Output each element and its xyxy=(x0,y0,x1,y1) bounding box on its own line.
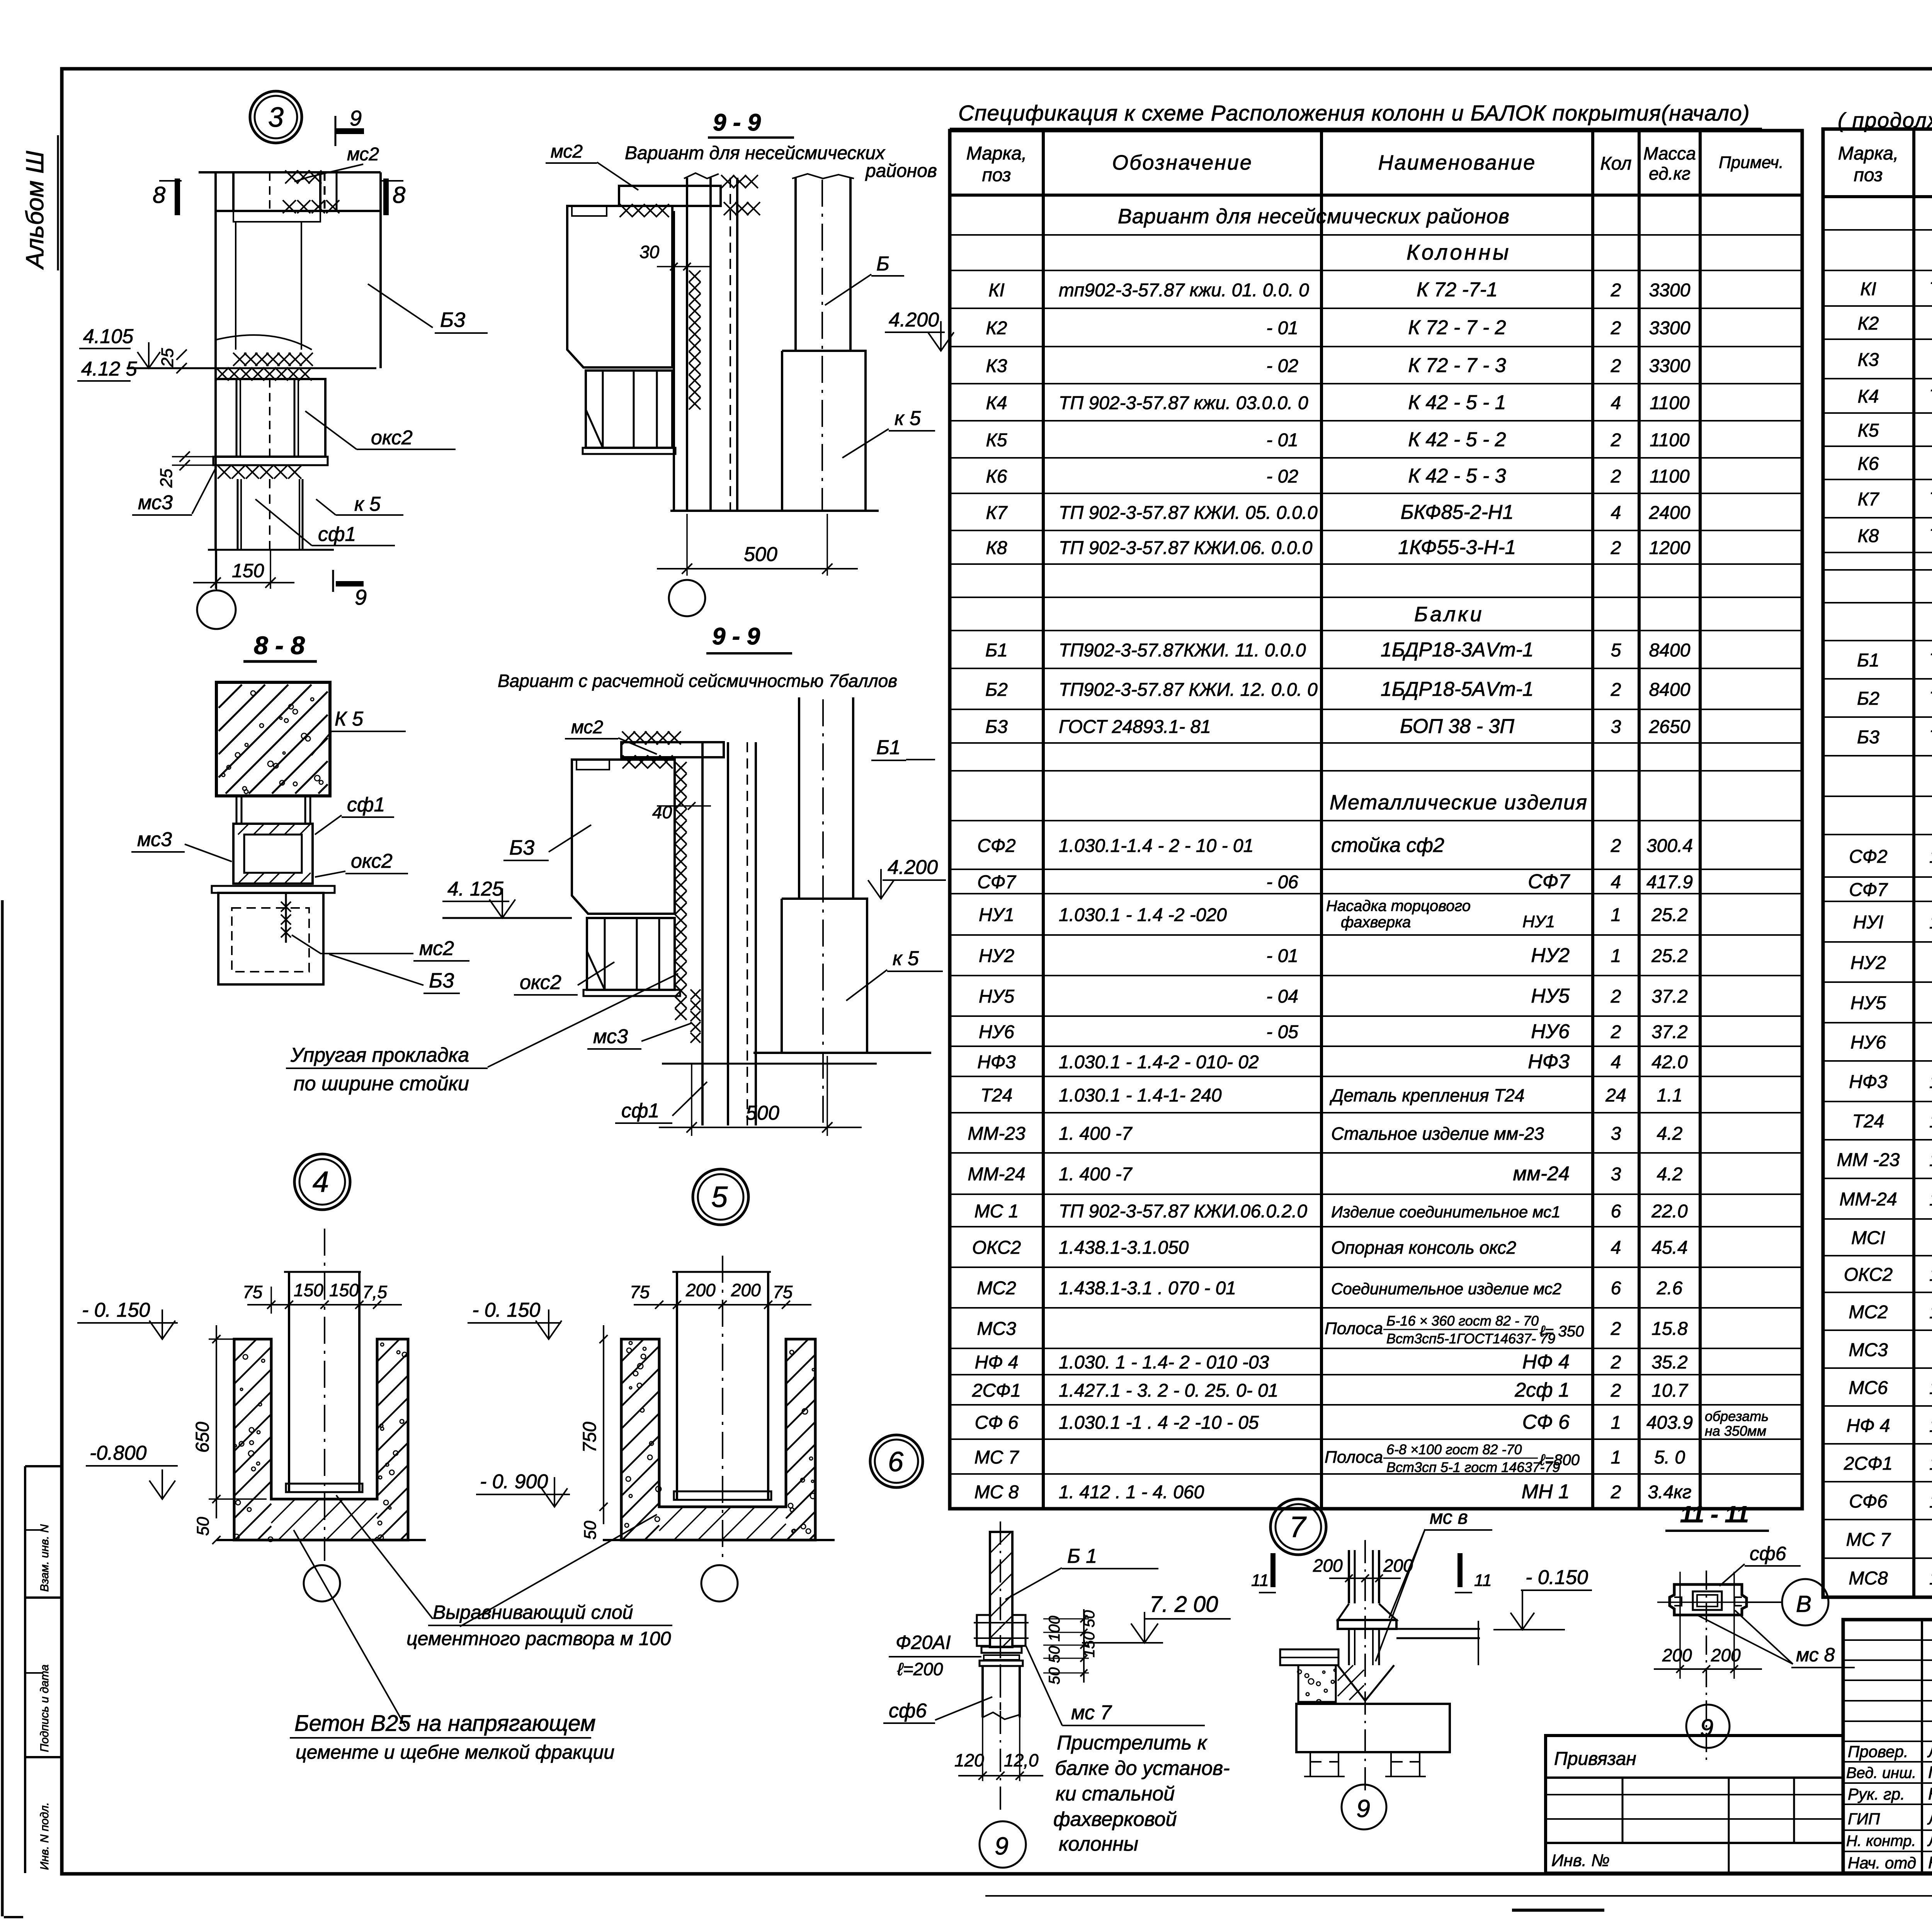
section mark 8 left tick xyxy=(175,178,180,215)
spec table2 header underline xyxy=(1823,195,1932,198)
fnd5 column left line xyxy=(676,1272,678,1500)
svg-text:5: 5 xyxy=(1611,640,1621,661)
svg-text:КI: КI xyxy=(1860,279,1876,299)
viewC ground line xyxy=(753,1052,931,1054)
label К5 underline viewC xyxy=(887,971,943,972)
d11 circle В xyxy=(1782,1579,1828,1625)
svg-text:2: 2 xyxy=(1611,1319,1621,1339)
svg-text:4. 125: 4. 125 xyxy=(447,878,504,900)
fnd4 hatch left wall xyxy=(234,1339,271,1540)
svg-text:500: 500 xyxy=(746,1102,779,1124)
node circle 3 xyxy=(250,91,302,143)
label ОКС2 underline xyxy=(357,449,456,450)
svg-text:6: 6 xyxy=(1611,1278,1621,1299)
svg-text:В: В xyxy=(1796,1591,1811,1617)
svg-text:417.9: 417.9 xyxy=(1646,872,1693,892)
svg-text:СФ 6: СФ 6 xyxy=(975,1413,1019,1433)
svg-text:2: 2 xyxy=(1611,836,1621,856)
svg-text:К4: К4 xyxy=(986,393,1007,413)
fnd4 leader to note2 xyxy=(294,1530,406,1727)
svg-text:1. 030. 1 - 1.4 - 2 - 010- 0: 1. 030. 1 - 1.4 - 2 - 010- 02 xyxy=(1929,1072,1932,1092)
d7 dim ticks xyxy=(1345,1574,1353,1582)
svg-text:4.12 5: 4.12 5 xyxy=(81,358,138,380)
svg-text:ТП 902-3-57. 87 КЖИ. 05. 0.0: ТП 902-3-57. 87 КЖИ. 05. 0.0.0 xyxy=(1929,489,1932,510)
svg-text:Краснова: Краснова xyxy=(1928,1785,1932,1804)
svg-text:Марка,: Марка, xyxy=(966,143,1027,164)
svg-text:50 50 100: 50 50 100 xyxy=(1046,1616,1063,1685)
fnd4 column right line xyxy=(358,1272,361,1492)
fw clamp right xyxy=(1012,1615,1026,1646)
viewC gasket xxx column xyxy=(675,762,687,1020)
fnd4 level -0.150 underline xyxy=(77,1322,178,1324)
svg-text:2: 2 xyxy=(1611,680,1621,700)
fnd5 pit outline xyxy=(621,1339,815,1540)
d7 right beam edge xyxy=(1478,1621,1479,1665)
svg-text:Б3: Б3 xyxy=(985,717,1008,737)
svg-text:К5: К5 xyxy=(986,430,1007,450)
viewA plate right edge xyxy=(319,172,321,211)
svg-text:Вариант для несейсмических: Вариант для несейсмических xyxy=(625,143,886,163)
svg-text:40: 40 xyxy=(652,802,672,822)
svg-text:3300: 3300 xyxy=(1649,280,1690,301)
leader СФ1 viewA xyxy=(255,499,312,546)
spec table2 row lines xyxy=(1823,229,1932,231)
svg-text:к 5: к 5 xyxy=(354,493,381,515)
viewA beam right edge xyxy=(379,172,382,368)
svg-text:- 01: - 01 xyxy=(1266,946,1298,966)
viewA lower column v3 xyxy=(299,479,300,550)
svg-text:9 - 9: 9 - 9 xyxy=(713,109,761,136)
svg-text:сф1: сф1 xyxy=(347,794,385,816)
fnd5 column top break xyxy=(672,1271,771,1273)
leader мс3 viewC xyxy=(641,1023,692,1041)
svg-text:6-8 ×100 гост 82 -70: 6-8 ×100 гост 82 -70 xyxy=(1386,1442,1522,1457)
level 4.200 underline viewC xyxy=(883,879,946,881)
svg-text:2400: 2400 xyxy=(1649,503,1690,523)
d11 axis vertical xyxy=(1706,1571,1707,1762)
left margin strip divider 1 xyxy=(25,1465,62,1467)
svg-text:Б-16 × 360 гост 82 - 70: Б-16 × 360 гост 82 - 70 xyxy=(1386,1313,1539,1329)
svg-text:К 72 - 7 - 2: К 72 - 7 - 2 xyxy=(1408,316,1506,339)
svg-text:НУ6: НУ6 xyxy=(979,1022,1014,1042)
svg-text:МС 1: МС 1 xyxy=(975,1201,1019,1222)
leader Б viewB xyxy=(825,274,871,305)
svg-text:КI: КI xyxy=(988,280,1005,301)
fnd5 level -0.150 mark xyxy=(536,1321,561,1339)
svg-text:ТП 902-3-57.87 КЖИ. 05. 0.0.0: ТП 902-3-57.87 КЖИ. 05. 0.0.0 xyxy=(1059,503,1318,523)
svg-text:Вст3сп5-1ГОСТ14637- 79: Вст3сп5-1ГОСТ14637- 79 xyxy=(1386,1331,1555,1346)
d11 label мс8 underline xyxy=(1791,1667,1855,1668)
svg-text:6: 6 xyxy=(1611,1201,1621,1222)
left margin strip mid tick a xyxy=(25,1529,43,1531)
viewB console bottom plate xyxy=(583,448,675,454)
svg-text:обрезать: обрезать xyxy=(1705,1408,1769,1424)
fnd4 level -0.800 underline xyxy=(86,1465,178,1467)
svg-text:25: 25 xyxy=(158,348,177,367)
fnd4 column top break xyxy=(284,1271,361,1273)
d11 axis side v2 xyxy=(1733,1572,1735,1679)
svg-text:мс2: мс2 xyxy=(419,937,454,960)
viewC col axis dashdot xyxy=(822,699,824,1125)
svg-text:8400: 8400 xyxy=(1649,640,1690,661)
svg-text:11 - 11: 11 - 11 xyxy=(1680,1501,1749,1527)
fw lower column collar xyxy=(980,1661,1023,1666)
svg-text:К8: К8 xyxy=(1858,526,1879,546)
svg-text:Б 1: Б 1 xyxy=(1067,1545,1097,1567)
svg-text:1.438.1-3.1.050: 1.438.1-3.1.050 xyxy=(1059,1238,1189,1258)
svg-text:Кол: Кол xyxy=(1600,153,1632,174)
spec table2 column lines xyxy=(1912,129,1915,1597)
svg-text:МС 7: МС 7 xyxy=(1846,1530,1891,1550)
viewB console inner v3 xyxy=(656,371,658,448)
viewA bottom ground line xyxy=(208,549,334,551)
viewB column line b xyxy=(686,178,688,511)
svg-text:фахверка: фахверка xyxy=(1341,914,1411,931)
svg-text:Ф20АI: Ф20АI xyxy=(896,1632,951,1653)
svg-text:1. 400 - 7: 1. 400 - 7 xyxy=(1929,1189,1932,1210)
viewA bottom dim ticks xyxy=(211,578,221,588)
level 7.200 mark xyxy=(1131,1623,1158,1643)
svg-text:ГОСТ 24893.1- 81: ГОСТ 24893.1- 81 xyxy=(1059,717,1211,737)
d11 leader мс8 a xyxy=(1697,1615,1793,1664)
svg-text:2: 2 xyxy=(1611,1352,1621,1373)
svg-text:8: 8 xyxy=(153,182,166,208)
viewB plate weld top xxx xyxy=(721,175,758,188)
svg-text:9: 9 xyxy=(995,1832,1009,1860)
node circle 6 xyxy=(870,1435,923,1487)
viewA inner plate line xyxy=(336,172,338,211)
label мс2 underline viewC xyxy=(565,738,618,739)
svg-text:Б3: Б3 xyxy=(1857,727,1879,748)
archive number line xyxy=(985,1895,1932,1897)
viewC right col Б1 line b xyxy=(852,697,854,899)
svg-text:Красавин: Красавин xyxy=(1928,1853,1932,1872)
svg-text:2: 2 xyxy=(1611,318,1621,338)
fnd4 hatch bottom xyxy=(271,1499,377,1540)
annex grid verticals xyxy=(1622,1778,1624,1843)
label Б3 underline viewC xyxy=(503,860,549,861)
d7 node circle 9 xyxy=(1342,1785,1386,1829)
svg-text:Б3: Б3 xyxy=(429,969,454,992)
d7 level -0.150 arrow xyxy=(1522,1590,1523,1627)
viewB right col Б line b xyxy=(849,178,852,351)
svg-text:стойка сф2: стойка сф2 xyxy=(1331,834,1444,857)
svg-text:НУ1: НУ1 xyxy=(1522,912,1555,931)
viewA beam axis dashed xyxy=(269,172,270,211)
svg-text:К 5: К 5 xyxy=(335,708,364,730)
svg-text:200: 200 xyxy=(1313,1555,1343,1576)
viewA console bottom plate xyxy=(213,457,328,465)
viewC level line xyxy=(442,917,572,919)
fnd5 leader to note1 xyxy=(460,1515,657,1627)
viewB top plate xyxy=(619,186,721,206)
svg-text:ТП 902-3-57.87 КЖИ. 04. 0.0.0: ТП 902-3-57.87 КЖИ. 04. 0.0.0 xyxy=(1929,386,1932,407)
svg-text:Спецификация к схеме Распо: Спецификация к схеме Расположения колонн… xyxy=(958,101,1750,126)
node circle 5 xyxy=(693,1169,748,1225)
svg-text:К 42 - 5 - 3: К 42 - 5 - 3 xyxy=(1408,465,1506,487)
svg-text:1. 427. 1 -3. 2 - 0. 25. 0- 01: 1. 427. 1 -3. 2 - 0. 25. 0- 01 xyxy=(1929,1453,1932,1474)
viewC lower break line xyxy=(662,1063,877,1065)
label СФ6 underline fw xyxy=(883,1722,935,1724)
leader Б3 viewA xyxy=(368,284,433,328)
fnd4 dim 650 ext xyxy=(209,1338,240,1340)
svg-text:ТП 902-3-57.87 КЖИ. 02. 0.0.: ТП 902-3-57.87 КЖИ. 02. 0.0. 0 xyxy=(1929,279,1932,299)
svg-text:11: 11 xyxy=(1251,1571,1269,1590)
svg-text:ℓ= 350: ℓ= 350 xyxy=(1539,1323,1584,1340)
svg-text:- 02: - 02 xyxy=(1266,356,1298,376)
viewB dim 500 ticks xyxy=(682,564,692,574)
svg-text:мс 7: мс 7 xyxy=(1071,1702,1112,1724)
label МС2 underline viewD xyxy=(413,960,469,962)
viewB ground line xyxy=(670,510,879,512)
svg-text:мс3: мс3 xyxy=(138,491,173,514)
svg-text:Полоса: Полоса xyxy=(1325,1319,1383,1338)
svg-text:Провер.: Провер. xyxy=(1848,1742,1908,1761)
viewA lower column v1 xyxy=(237,479,239,550)
label мс2 underline viewB xyxy=(546,162,597,164)
d11 axis horizontal xyxy=(1657,1601,1770,1603)
svg-text:Нач. отд: Нач. отд xyxy=(1848,1854,1916,1872)
viewA beam inner vert b xyxy=(301,222,302,350)
svg-text:12,0: 12,0 xyxy=(1004,1750,1039,1770)
svg-text:мс2: мс2 xyxy=(347,144,379,165)
d7 concrete block left xyxy=(1298,1665,1336,1702)
svg-text:75: 75 xyxy=(630,1282,650,1302)
svg-text:К6: К6 xyxy=(986,466,1007,487)
svg-text:Б1: Б1 xyxy=(1857,650,1879,671)
fnd4 dim 650 line xyxy=(216,1325,217,1518)
viewD title underline xyxy=(243,660,317,663)
d7 funnel xyxy=(1338,1665,1394,1701)
viewD СФ1 hatch xyxy=(233,824,311,835)
fw vert dim ticks xyxy=(1080,1615,1087,1622)
svg-text:1.1: 1.1 xyxy=(1657,1085,1683,1106)
svg-text:ℓ=200: ℓ=200 xyxy=(897,1659,943,1679)
fnd4 base line xyxy=(216,1539,426,1541)
svg-text:Подпись и дата: Подпись и дата xyxy=(38,1664,51,1752)
svg-text:Выравнивающий слой: Выравнивающий слой xyxy=(433,1601,633,1623)
annex grid rows xyxy=(1546,1794,1843,1795)
svg-text:Б3: Б3 xyxy=(509,836,534,859)
fnd4 dots left xyxy=(234,1355,273,1542)
svg-text:8 - 8: 8 - 8 xyxy=(254,631,305,660)
svg-text:К7: К7 xyxy=(1858,489,1880,510)
viewA grid circle axis xyxy=(216,550,217,590)
fw dim ext lines down xyxy=(982,1717,983,1781)
svg-text:1.438. 1 - 3.1. 070 - 05: 1.438. 1 - 3.1. 070 - 05 xyxy=(1929,1378,1932,1398)
viewA weld band xxx upper xyxy=(233,353,313,366)
svg-text:Рук. гр.: Рук. гр. xyxy=(1848,1785,1905,1803)
viewA level line 4.105 xyxy=(127,367,376,369)
svg-text:9: 9 xyxy=(1700,1715,1713,1741)
svg-text:ед.кг: ед.кг xyxy=(1649,163,1690,184)
level 4.125 underline xyxy=(77,380,131,382)
svg-text:1. 030. 1 - 1. 4 - 2 - 02: 1. 030. 1 - 1. 4 - 2 - 020 xyxy=(1929,912,1932,933)
fnd4 dim 650 ticks xyxy=(212,1335,220,1343)
svg-text:МН 1: МН 1 xyxy=(1522,1481,1570,1503)
svg-text:4: 4 xyxy=(1611,1238,1621,1258)
d7 leader мс8 a xyxy=(1389,1529,1425,1618)
svg-text:ТП 902-3-57.87 КЖИ. 12. 0.0.0: ТП 902-3-57.87 КЖИ. 12. 0.0.0 xyxy=(1929,688,1932,709)
svg-text:1.030.1-1.4 - 2 - 10 - 01: 1.030.1-1.4 - 2 - 10 - 01 xyxy=(1059,836,1253,856)
svg-text:5. 0: 5. 0 xyxy=(1654,1447,1685,1468)
fnd5 column bottom plate xyxy=(674,1491,771,1500)
svg-text:3300: 3300 xyxy=(1649,356,1690,376)
svg-text:9: 9 xyxy=(350,106,362,130)
svg-text:К2: К2 xyxy=(986,318,1007,338)
svg-text:25.2: 25.2 xyxy=(1651,905,1687,925)
fnd5 dots right xyxy=(788,1350,816,1533)
fw dim 120 line xyxy=(958,1775,1043,1776)
fnd5 column axis xyxy=(722,1256,723,1561)
viewC top plate xyxy=(621,742,724,757)
annex привязан row line xyxy=(1546,1776,1843,1779)
svg-text:150 50: 150 50 xyxy=(1081,1610,1098,1657)
d7 right beam line2 xyxy=(1396,1637,1480,1639)
svg-text:Т24: Т24 xyxy=(981,1085,1013,1106)
leader Б1 viewC xyxy=(906,759,935,760)
svg-text:Б1: Б1 xyxy=(985,640,1008,661)
viewA weld crosses top xyxy=(285,170,321,184)
svg-text:Обозначение: Обозначение xyxy=(1112,151,1253,174)
svg-text:поз: поз xyxy=(982,165,1011,185)
svg-text:ТП 902-3-57.87 КЖИ . 11. 0.0: ТП 902-3-57.87 КЖИ . 11. 0.0.0 xyxy=(1929,650,1932,671)
svg-text:2650: 2650 xyxy=(1649,717,1690,737)
viewA console inner v1 xyxy=(236,379,238,457)
svg-text:Деталь крепления Т24: Деталь крепления Т24 xyxy=(1329,1085,1524,1105)
svg-text:НФ3: НФ3 xyxy=(1528,1051,1570,1073)
spec table1 column lines xyxy=(1042,131,1045,1509)
svg-text:2: 2 xyxy=(1611,986,1621,1007)
d11 node circle 9 xyxy=(1686,1705,1730,1748)
leader ОКС2 viewA xyxy=(305,411,357,449)
svg-text:35.2: 35.2 xyxy=(1651,1352,1687,1373)
d7 label мс8 underline xyxy=(1425,1529,1492,1531)
fnd4 column bottom plate xyxy=(286,1484,362,1492)
d11 groove left xyxy=(1674,1597,1682,1606)
svg-text:2: 2 xyxy=(1611,356,1621,376)
svg-text:Упругая прокладка: Упругая прокладка xyxy=(290,1044,469,1066)
fnd5 level -0.150 underline xyxy=(468,1322,561,1324)
svg-text:-0.800: -0.800 xyxy=(90,1442,147,1464)
svg-text:3.4кг: 3.4кг xyxy=(1648,1482,1691,1503)
svg-text:75: 75 xyxy=(773,1282,793,1302)
spec table1 title underline xyxy=(950,128,1762,129)
svg-text:мм-24: мм-24 xyxy=(1513,1163,1570,1185)
d7 concrete dots xyxy=(1298,1669,1336,1704)
d11 leader мс8 b xyxy=(1735,1610,1793,1664)
archive heavy line stub xyxy=(1512,1909,1604,1912)
level 4.105 underline xyxy=(79,348,131,349)
fnd4 dim ticks xyxy=(267,1300,275,1309)
label Ф20AI underline xyxy=(889,1656,981,1657)
level 7.200 line xyxy=(1082,1642,1163,1644)
svg-text:75: 75 xyxy=(243,1282,263,1302)
fnd5 dim 750 ticks xyxy=(599,1335,607,1343)
viewC K5 col outline xyxy=(782,899,867,1053)
svg-text:200: 200 xyxy=(1711,1645,1741,1665)
viewA lower column dashed axis xyxy=(269,479,270,550)
fnd5 level -0.900 mark xyxy=(541,1488,567,1507)
viewC gasket xxx lower xyxy=(690,989,701,1043)
svg-text:4: 4 xyxy=(1611,503,1621,523)
fnd5 dots left xyxy=(625,1341,661,1527)
svg-text:К6: К6 xyxy=(1858,454,1879,474)
svg-text:МС 7: МС 7 xyxy=(975,1447,1020,1468)
fnd4 dim line xyxy=(247,1304,402,1306)
viewC console bottom plate xyxy=(583,990,680,996)
dim 40 line xyxy=(657,805,711,807)
d11 block inner rect inner xyxy=(1697,1595,1718,1606)
svg-text:К2: К2 xyxy=(1858,313,1879,334)
svg-text:2: 2 xyxy=(1611,466,1621,487)
level 4.125 underline viewC xyxy=(442,901,509,902)
svg-text:4.105: 4.105 xyxy=(83,325,134,348)
viewB column line a xyxy=(673,211,675,511)
viewC plate weld xxx below xyxy=(622,755,673,768)
fnd5 base line xyxy=(603,1539,835,1541)
svg-text:15.8: 15.8 xyxy=(1651,1319,1688,1339)
svg-text:Альбом Ш: Альбом Ш xyxy=(21,151,49,270)
d11 block outer xyxy=(1670,1584,1747,1615)
annex привязан box xyxy=(1546,1736,1843,1873)
svg-text:тп902-3-57.87 кжи. 01. 0.0. 0: тп902-3-57.87 кжи. 01. 0.0. 0 xyxy=(1059,280,1309,301)
svg-text:НУ2: НУ2 xyxy=(979,946,1014,966)
svg-text:мс3: мс3 xyxy=(593,1025,628,1048)
leader ОКС2 viewC xyxy=(578,962,614,985)
viewC plate weld xxx above xyxy=(622,731,681,745)
svg-text:1.030.1 - 1.4-1- 240: 1.030.1 - 1.4-1- 240 xyxy=(1059,1085,1222,1106)
viewC dim 500 line xyxy=(659,1127,862,1128)
svg-text:Б1: Б1 xyxy=(876,736,901,759)
fw node circle 9 xyxy=(980,1821,1026,1868)
svg-text:МС3: МС3 xyxy=(977,1319,1016,1339)
viewB plate weld bottom xxx xyxy=(620,204,669,217)
d11 title underline xyxy=(1665,1530,1769,1532)
d11 groove right xyxy=(1735,1597,1742,1606)
svg-text:Взам. инв. N: Взам. инв. N xyxy=(38,1524,51,1592)
d11 dim ticks xyxy=(1676,1665,1684,1673)
svg-text:25: 25 xyxy=(157,469,176,488)
svg-text:150: 150 xyxy=(232,560,264,581)
fnd5 dim ticks xyxy=(655,1300,663,1309)
svg-text:на 350мм: на 350мм xyxy=(1705,1423,1766,1439)
svg-text:МС8: МС8 xyxy=(1849,1568,1888,1589)
leader упругая прокладка xyxy=(488,974,678,1067)
d11 dim line xyxy=(1654,1668,1762,1670)
svg-text:сф1: сф1 xyxy=(318,523,356,546)
svg-text:6: 6 xyxy=(888,1447,904,1477)
svg-text:мс 8: мс 8 xyxy=(1796,1644,1835,1666)
spec table2 outer border xyxy=(1823,129,1932,1597)
svg-text:сф1: сф1 xyxy=(621,1100,659,1122)
leader сф1 viewC xyxy=(672,1082,707,1116)
d7 left slab xyxy=(1280,1649,1338,1665)
label Б1 underline fw xyxy=(1062,1568,1158,1569)
label Б3 underline viewD xyxy=(423,993,460,994)
svg-text:300.4: 300.4 xyxy=(1646,836,1693,856)
svg-text:НФ3: НФ3 xyxy=(977,1052,1016,1073)
svg-text:К 72 - 7 - 3: К 72 - 7 - 3 xyxy=(1408,354,1506,377)
svg-text:1БДР18-5АVт-1: 1БДР18-5АVт-1 xyxy=(1381,678,1534,700)
svg-text:1. 030. 1 -1. 4 - 2 - 10 -01: 1. 030. 1 -1. 4 - 2 - 10 -01 xyxy=(1929,847,1932,867)
svg-text:5: 5 xyxy=(711,1181,728,1214)
svg-text:50: 50 xyxy=(581,1521,600,1540)
svg-text:1. 438. 1 - 3.1. 070 - 01: 1. 438. 1 - 3.1. 070 - 01 xyxy=(1929,1302,1932,1323)
svg-text:45.4: 45.4 xyxy=(1651,1238,1687,1258)
d7 level -0.150 underline xyxy=(1521,1589,1592,1591)
svg-text:Изделие соединительное мс1: Изделие соединительное мс1 xyxy=(1331,1203,1561,1221)
